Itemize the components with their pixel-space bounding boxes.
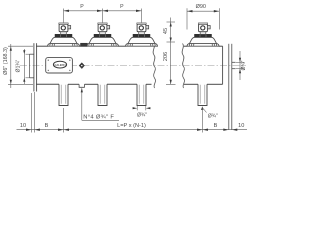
svg-text:Ø¾": Ø¾"	[208, 114, 218, 120]
svg-text:206: 206	[163, 52, 169, 61]
vent valve V4	[187, 23, 219, 46]
outlet stub S2	[98, 84, 107, 105]
svg-text:45: 45	[163, 28, 169, 34]
left end port stub	[30, 53, 34, 55]
svg-text:Ø¾": Ø¾"	[241, 60, 247, 70]
break line right	[182, 44, 184, 89]
svg-text:N°4 Ø¾" F: N°4 Ø¾" F	[83, 115, 114, 121]
svg-text:Ø1¼": Ø1¼"	[16, 59, 22, 72]
dimension P extension lines	[64, 9, 142, 23]
dimension 45 206 line	[170, 18, 172, 85]
label stub4 diameter	[201, 106, 203, 110]
right end cap	[222, 46, 224, 84]
svg-text:10: 10	[238, 123, 244, 129]
vent valve V2	[87, 23, 119, 46]
outlet stub S3	[137, 84, 146, 105]
left end cap	[33, 43, 35, 91]
outlet stub S1	[59, 84, 68, 105]
svg-text:CALEFFI: CALEFFI	[55, 63, 66, 67]
svg-text:P: P	[80, 4, 84, 10]
label stub3 diameter	[136, 106, 138, 110]
left port dimension line	[23, 49, 25, 84]
left diameter dimension line	[10, 44, 12, 88]
vent valve V3	[126, 23, 158, 46]
svg-text:P: P	[120, 4, 124, 10]
svg-text:Ø¾": Ø¾"	[137, 113, 147, 119]
small bottom port	[79, 84, 84, 87]
manifold body top edge	[36, 45, 223, 47]
bottom dimension line	[17, 129, 248, 131]
diamond marker	[79, 63, 84, 69]
nameplate logo oval	[53, 61, 66, 68]
svg-text:Ø6" (168.3): Ø6" (168.3)	[3, 47, 9, 75]
break line left	[153, 44, 155, 89]
svg-text:B: B	[45, 123, 49, 129]
right end port stub	[232, 61, 236, 63]
outlet stub S4	[198, 84, 207, 105]
nameplate	[46, 58, 73, 73]
top plug nut between V1 V2	[81, 43, 88, 46]
dimension O90 extension lines	[186, 8, 188, 29]
svg-text:Ø90: Ø90	[196, 4, 206, 10]
right port dimension	[239, 51, 241, 80]
dimension O90 line	[187, 10, 219, 12]
label N4 ports with leader	[81, 88, 83, 120]
bottom dimension extension lines	[32, 92, 203, 133]
svg-text:10: 10	[20, 123, 26, 129]
svg-text:L=P x (N-1): L=P x (N-1)	[117, 123, 146, 129]
manifold body bottom edge	[36, 83, 223, 85]
vent valve V1	[48, 23, 80, 46]
centerline of manifold	[20, 65, 246, 67]
svg-text:B: B	[214, 123, 218, 129]
dimension P line	[64, 10, 142, 12]
